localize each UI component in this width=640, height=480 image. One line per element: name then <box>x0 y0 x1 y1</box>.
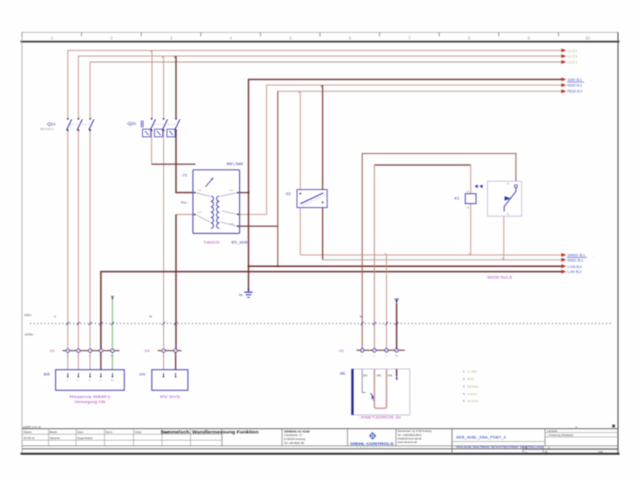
device box X2 unit <box>340 369 410 419</box>
wire Q2 pole3 to T1 primary dark <box>176 130 193 192</box>
svg-text:1PE: 1PE <box>363 375 368 378</box>
svg-text:24VDC /5.1: 24VDC /5.1 <box>568 254 586 258</box>
wire T1 bottom pin to PE drop <box>240 225 278 227</box>
node labels 24V 0V L+ L- <box>568 254 586 275</box>
svg-text:PE10 /3.1: PE10 /3.1 <box>568 90 583 94</box>
svg-text:M 0V: M 0V <box>468 377 475 381</box>
frame left border <box>21 32 23 453</box>
wire K1 coil return <box>470 204 472 255</box>
svg-text:ANLAGE SALTBAD 30 kV/TECHNIK V: ANLAGE SALTBAD 30 kV/TECHNIK VERTEILUNG <box>456 445 545 449</box>
terminal strip X2 <box>338 349 405 359</box>
svg-text:PE: PE <box>395 356 399 358</box>
logo <box>351 433 394 449</box>
svg-text:Gepr.: Gepr. <box>77 430 84 434</box>
wire PE110 vertical to T1 <box>277 91 279 266</box>
frame right border <box>617 32 619 453</box>
svg-text:-X1: -X1 <box>49 349 55 353</box>
wire switch out 1 <box>299 204 301 255</box>
svg-text:+ Änderung Schaltplan: + Änderung Schaltplan <box>547 433 574 437</box>
drawing frame top ruler light line <box>22 31 618 33</box>
svg-text:BTr_1kVA: BTr_1kVA <box>232 240 249 244</box>
svg-text:-S1: -S1 <box>285 191 291 196</box>
wire PE110 bus <box>278 90 562 92</box>
dotted separator line <box>30 323 612 325</box>
wire ground drop <box>248 193 250 289</box>
svg-text:DIEHL CONTROLS: DIEHL CONTROLS <box>351 441 394 446</box>
svg-text:Datum: Datum <box>24 430 33 434</box>
svg-text:3RV1011-1: 3RV1011-1 <box>40 127 54 131</box>
svg-text:Bearb.: Bearb. <box>50 430 58 434</box>
wire 0V bus <box>323 259 562 261</box>
svg-text:03.05.12: 03.05.12 <box>24 436 35 440</box>
switch S1 <box>285 190 327 208</box>
svg-text:Urspr.: Urspr. <box>135 430 143 434</box>
wire K1 contact return <box>503 208 505 260</box>
svg-text:-Q1A: -Q1A <box>46 121 56 126</box>
wire branch L3 to Q2 dark <box>175 56 177 119</box>
ground symbol <box>239 289 253 298</box>
junction dots <box>248 192 279 268</box>
svg-text:-K1: -K1 <box>454 196 460 201</box>
svg-text:Norm: Norm <box>106 430 114 434</box>
wire T1 secondary pin1 stub <box>240 192 249 194</box>
wire Q2 pole1 stub <box>151 130 153 164</box>
wire X4 stubs into box <box>163 351 165 377</box>
wire inner loop top dark <box>374 164 470 166</box>
svg-text:SL 2mm: SL 2mm <box>468 399 479 403</box>
node labels 110V N PE <box>568 78 583 94</box>
wire Q1 pole2 down to X1 <box>77 130 79 350</box>
wire PE green <box>111 300 113 376</box>
svg-text:L+ 24V: L+ 24V <box>468 370 477 374</box>
node labels L1 L2 L3 <box>568 49 578 65</box>
wire Q1 pole1 down to X1 <box>67 130 69 350</box>
svg-text:c o n t r o l s: c o n t r o l s <box>357 446 381 449</box>
svg-text:-Q2A: -Q2A <box>127 121 137 126</box>
circuit breaker Q2 <box>127 118 180 137</box>
svg-text:AW | 5aM: AW | 5aM <box>227 162 243 166</box>
title block lower separators <box>22 445 618 447</box>
revision marks above title block <box>612 425 615 428</box>
wire switch out 2 dark <box>322 202 324 259</box>
svg-text:info@siemens-ag.de: info@siemens-ag.de <box>398 436 422 440</box>
node labels at separator <box>66 322 398 325</box>
frame bottom thick line <box>21 453 620 455</box>
svg-text:L3 /2.1: L3 /2.1 <box>568 61 578 65</box>
wire 110V bus dark <box>249 79 562 192</box>
svg-text:Gegenhuber: Gegenhuber <box>77 436 93 440</box>
svg-text:3PE: 3PE <box>388 375 393 378</box>
svg-text:V: V <box>54 314 56 318</box>
svg-text:110V /3.1: 110V /3.1 <box>568 78 582 82</box>
junction hooks <box>150 50 504 259</box>
svg-text:B05: B05 <box>44 373 50 377</box>
wire dark bar below Q2 <box>152 163 196 165</box>
svg-text:Trafo2x15: Trafo2x15 <box>204 240 220 244</box>
svg-text:PE: PE <box>239 293 243 297</box>
svg-text:2PE: 2PE <box>377 375 382 378</box>
wire X2 PE dark <box>396 303 398 350</box>
terminal strip X1 <box>49 349 120 358</box>
wire L+ bus dark <box>249 265 562 267</box>
svg-text:RV 5VS: RV 5VS <box>160 395 181 399</box>
wire K1 coil feed <box>470 165 472 194</box>
interruption arrows right edge <box>561 49 566 274</box>
wire T1 primary return to X4 dark <box>175 215 177 351</box>
svg-text:PE: PE <box>110 356 114 358</box>
svg-text:-X2: -X2 <box>338 349 344 353</box>
title block <box>22 425 618 454</box>
wire L3 bus <box>90 62 561 119</box>
wire outer loop to K1 contact <box>362 154 516 351</box>
wire 24VDC bus <box>300 254 561 256</box>
svg-text:N110 /3.1: N110 /3.1 <box>568 84 583 88</box>
svg-text:L-0V /5.2: L-0V /5.2 <box>568 270 582 274</box>
svg-text:-X4: -X4 <box>144 349 150 353</box>
svg-text:Prim: Prim <box>181 201 188 205</box>
transformer T1 <box>181 162 248 244</box>
svg-text:3 Bl.: 3 Bl. <box>598 450 603 454</box>
svg-text:Reserve WMF1: Reserve WMF1 <box>70 395 111 399</box>
device box X1 supply <box>44 370 125 405</box>
drawing frame top thick line <box>21 41 620 43</box>
wire L1 bus <box>68 50 562 118</box>
svg-text:-W230 5x1,5: -W230 5x1,5 <box>486 275 512 279</box>
wire X1 stubs into box <box>68 351 90 377</box>
svg-text:←: ← <box>592 254 595 258</box>
svg-text:www.siemens.de: www.siemens.de <box>398 440 418 444</box>
svg-text:0VDC /5.1: 0VDC /5.1 <box>568 258 584 262</box>
terminal strip X4 <box>144 349 182 358</box>
legend notes <box>463 370 479 403</box>
wire X2 drop from 24VDC <box>386 255 388 350</box>
svg-text:Tel +49 9621 80: Tel +49 9621 80 <box>284 441 304 445</box>
svg-text:AEB_AVBL_EBA_PDBT_4: AEB_AVBL_EBA_PDBT_4 <box>456 435 507 440</box>
PE source symbol green wire <box>111 296 114 300</box>
svg-text:Bl.: Bl. <box>525 446 528 450</box>
wire T1 secondary pin2 to N bus <box>240 213 267 215</box>
svg-text:-W7Mo: -W7Mo <box>24 333 34 337</box>
svg-text:Siemensstr. 12, D-92 Amberg: Siemensstr. 12, D-92 Amberg <box>398 429 432 433</box>
wire Q1 pole3 down to X1 <box>89 130 91 350</box>
relay contact K1 <box>475 181 522 216</box>
svg-text:-T1: -T1 <box>182 172 188 177</box>
circuit breaker Q1 <box>40 116 94 131</box>
svg-text:-U1: -U1 <box>340 371 346 375</box>
svg-text:L2 /2.1: L2 /2.1 <box>568 55 578 59</box>
title block top line <box>22 428 618 430</box>
svg-text:a Erstellt: a Erstellt <box>547 429 557 433</box>
svg-text:Versorgung 23k: Versorgung 23k <box>75 400 106 404</box>
svg-text:1/9kV: 1/9kV <box>24 313 31 317</box>
wire inner loop left <box>373 165 375 350</box>
svg-text:N 4mm: N 4mm <box>468 392 478 396</box>
wire Q2 pole2 down to X4 <box>163 130 165 350</box>
device box X4 24V <box>139 370 188 399</box>
svg-text:PE 6mm: PE 6mm <box>468 384 480 388</box>
wire branch L1 to Q2 <box>151 50 153 118</box>
wire X1 feed dark into box <box>100 351 102 377</box>
svg-text:L1 /2.1: L1 /2.1 <box>568 49 578 53</box>
wire switch feed 2 dark <box>322 85 324 193</box>
svg-text:-XNETZDROS 3x: -XNETZDROS 3x <box>359 415 401 419</box>
wire branch L2 to Q2 <box>163 56 165 119</box>
wire L2 bus <box>78 56 561 119</box>
ruler ticks and column numbers <box>22 32 558 36</box>
svg-text:Tel. +49(0)9621/80-0: Tel. +49(0)9621/80-0 <box>398 433 423 437</box>
wire T1 primary pin2 lead <box>176 214 193 216</box>
relay coil K1 <box>454 190 477 209</box>
svg-text:Sammelsch. Wandlermessung Funk: Sammelsch. Wandlermessung Funktion <box>161 430 260 435</box>
wire N110 bus <box>267 85 562 214</box>
wire L- bus dark <box>101 272 562 351</box>
wire switch feed 1 <box>299 91 301 193</box>
svg-text:←: ← <box>590 78 593 82</box>
svg-text:AAPP 1-3 /-A: AAPP 1-3 /-A <box>23 425 41 429</box>
svg-text:24V: 24V <box>139 373 146 377</box>
svg-text:10: 10 <box>585 36 590 41</box>
svg-text:L+24 /5.2: L+24 /5.2 <box>568 265 582 269</box>
PE source symbol X2 wire <box>394 299 399 303</box>
svg-text:Hausner: Hausner <box>50 436 61 440</box>
